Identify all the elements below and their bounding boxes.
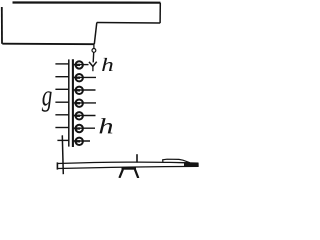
contact stud circle 7 <box>76 138 83 145</box>
rung 1 right wire <box>73 64 89 66</box>
hanging wire from rung 7 to below beam <box>62 135 63 174</box>
rung 5 right wire <box>73 115 96 117</box>
beam top line <box>58 162 199 163</box>
contact stud circle 6 <box>76 125 83 132</box>
rung 6 left wire <box>55 127 68 129</box>
trough step bottom edge <box>97 22 160 25</box>
contact stud circle 4 <box>76 100 83 107</box>
ladder rod right line <box>72 59 74 147</box>
rung 7 left wire <box>57 139 68 141</box>
binding post circle <box>92 49 96 53</box>
fulcrum left side <box>119 169 123 178</box>
rider weight on beam <box>163 159 190 163</box>
trough right edge <box>159 3 161 23</box>
label h (top) <box>102 58 113 71</box>
rung 1 left wire <box>55 63 68 65</box>
rung 2 center dash <box>75 77 80 79</box>
contact stud circle 3 <box>76 87 83 94</box>
fulcrum right side <box>135 169 138 178</box>
ladder rod left line <box>68 59 70 146</box>
rung 4 left wire <box>55 101 68 103</box>
contact stud circle 1 <box>76 61 83 68</box>
rung 6 center dash <box>75 127 80 129</box>
contact stud circle 2 <box>76 74 83 81</box>
rung 7 center dash <box>75 140 80 142</box>
rung 6 right wire <box>73 127 95 129</box>
pointer tick above fulcrum <box>136 154 138 162</box>
trough step vertical <box>94 23 97 45</box>
trough top edge <box>13 1 161 3</box>
arrowhead <box>89 62 97 67</box>
rung 2 left wire <box>55 76 68 78</box>
rung 1 center dash <box>75 64 80 66</box>
rung 3 center dash <box>75 89 80 91</box>
rung 4 right wire <box>73 102 96 104</box>
rung 2 right wire <box>73 76 96 78</box>
beam right end cap <box>184 163 199 167</box>
rung 5 left wire <box>55 114 68 116</box>
label g <box>42 91 52 112</box>
wire shaft to arrow <box>92 52 95 62</box>
beam bottom line <box>58 166 199 168</box>
rung 3 left wire <box>55 88 68 90</box>
rung 5 center dash <box>75 115 80 117</box>
contact stud circle 5 <box>76 112 83 119</box>
rung 3 right wire <box>73 89 96 91</box>
wire from trough to post <box>93 44 95 48</box>
rung 7 right wire <box>73 140 90 142</box>
beam left end cap <box>56 162 58 169</box>
rung 4 center dash <box>75 102 80 104</box>
arrow tail <box>92 67 94 72</box>
fulcrum top edge (merged with beam underside) <box>122 167 137 169</box>
label h (bottom) <box>99 118 112 133</box>
trough bottom edge <box>2 43 94 46</box>
trough left edge <box>1 7 3 44</box>
